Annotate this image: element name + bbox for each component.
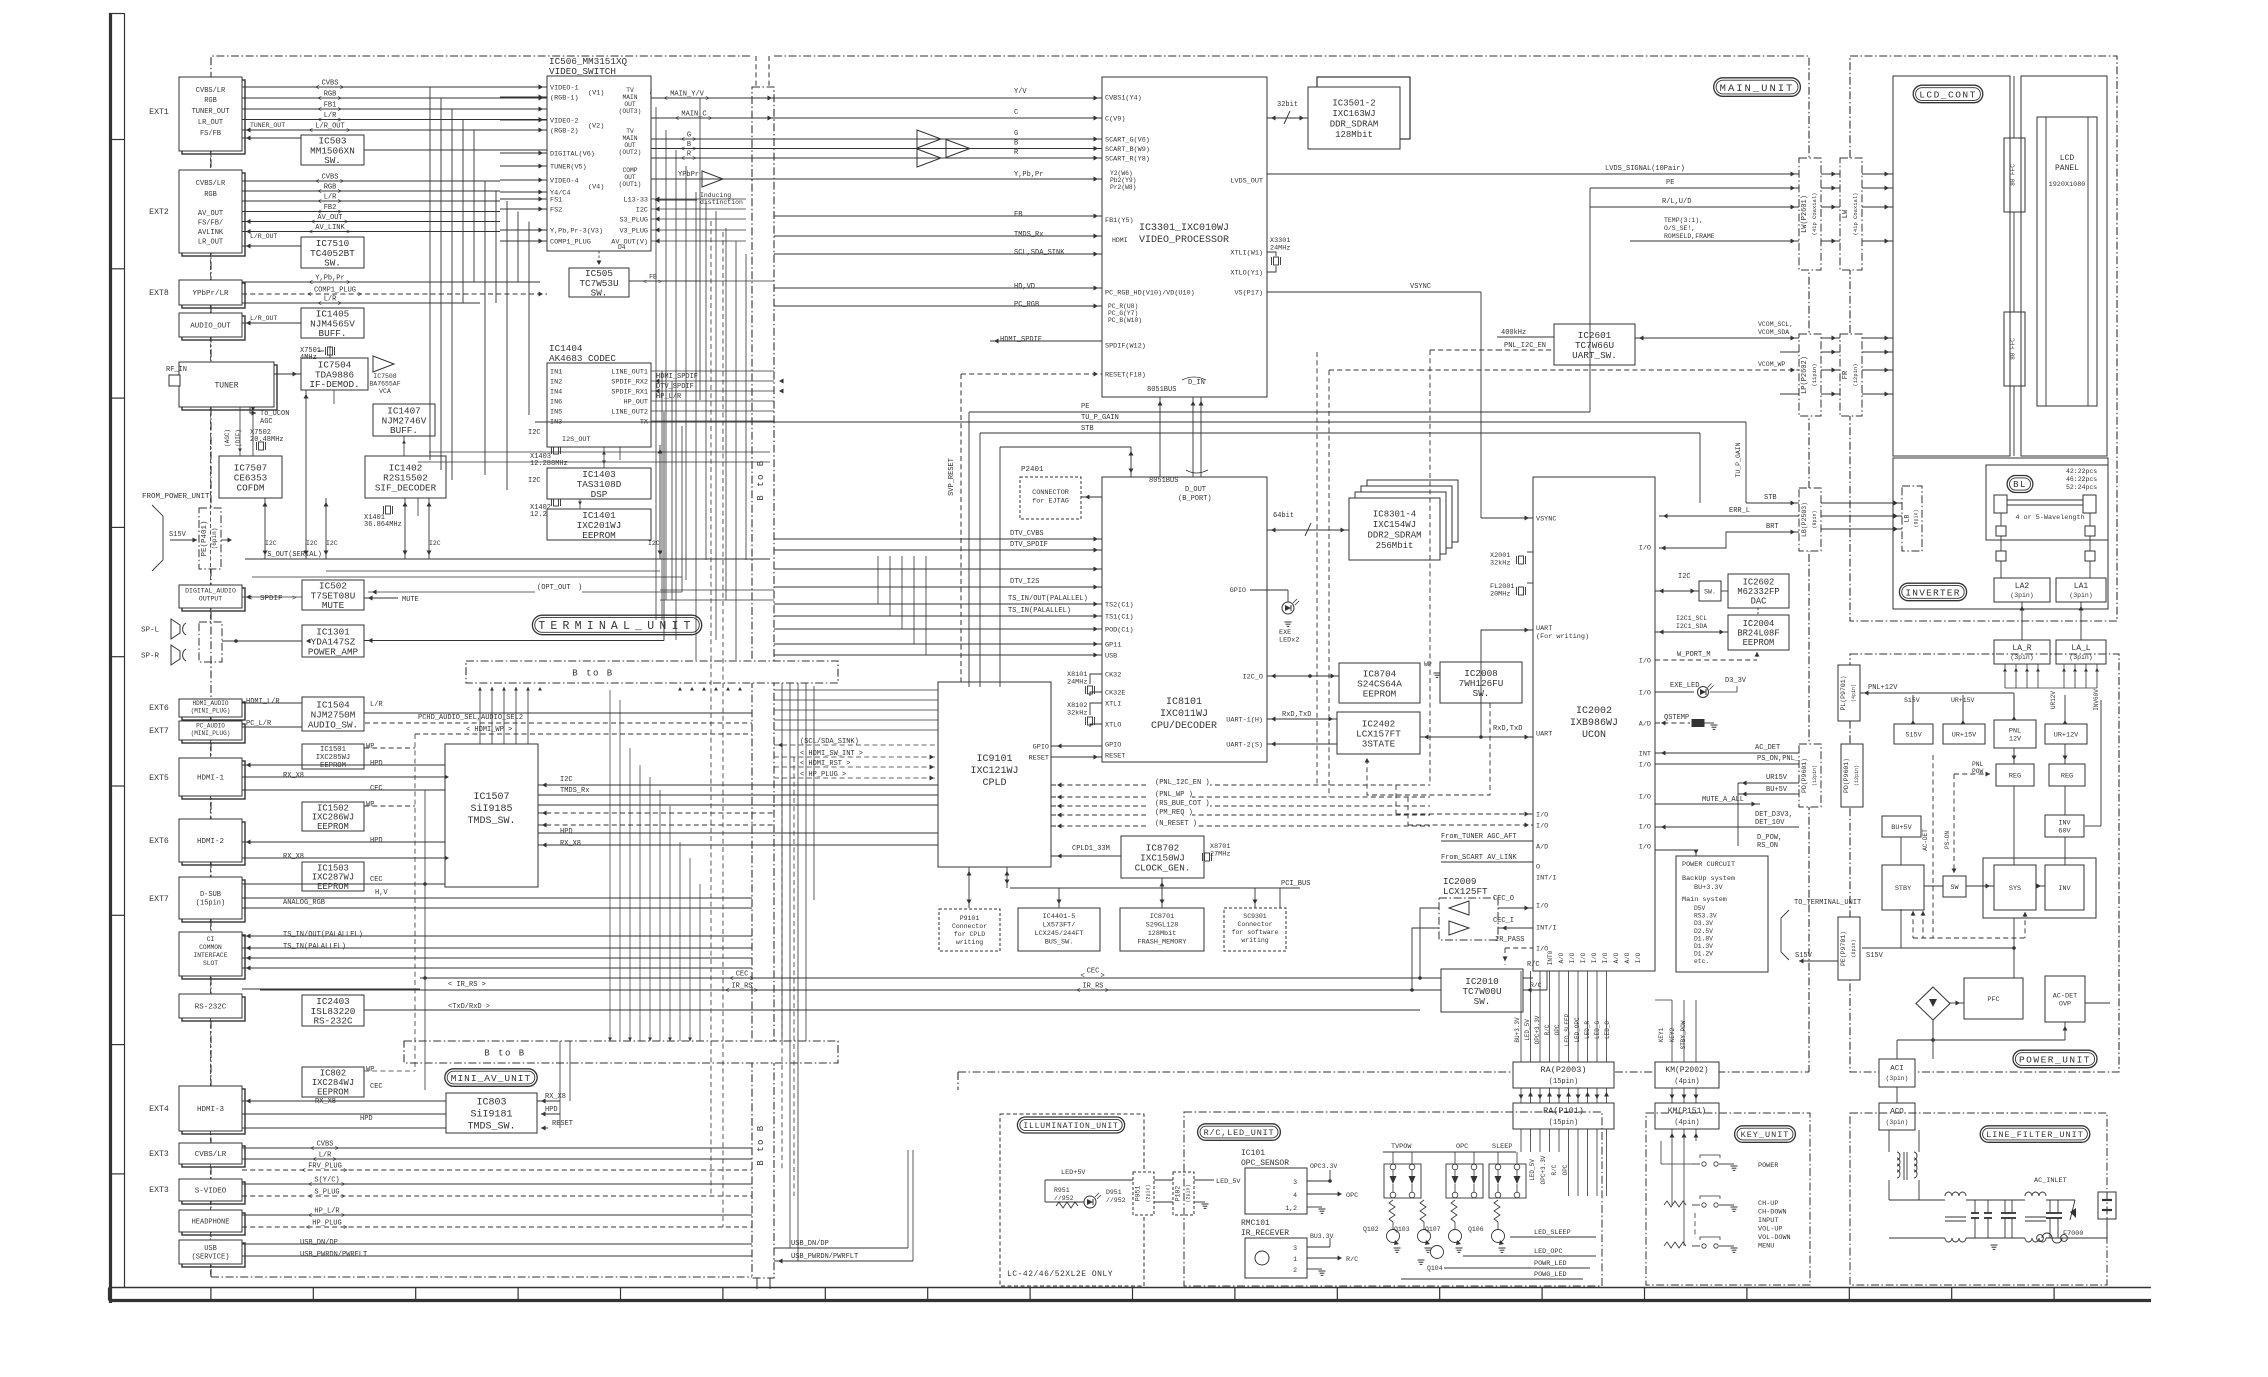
svg-text:<: < — [681, 146, 685, 154]
svg-text:IXC163WJ: IXC163WJ — [1332, 109, 1375, 119]
svg-text:AC-DET: AC-DET — [1922, 829, 1929, 851]
svg-text:HP_OUT: HP_OUT — [624, 399, 648, 407]
svg-text:PC_AUDIO: PC_AUDIO — [196, 723, 225, 730]
svg-text:H,V: H,V — [375, 889, 388, 897]
svg-text:UART-1(H): UART-1(H) — [1226, 717, 1263, 725]
svg-text:20.48MHz: 20.48MHz — [250, 436, 284, 444]
svg-text:CVBS/LR: CVBS/LR — [196, 180, 226, 188]
svg-text:(PNL_WP ): (PNL_WP ) — [1155, 791, 1193, 799]
svg-text:OPC+3.3V: OPC+3.3V — [1540, 1155, 1547, 1184]
svg-text:CVBS: CVBS — [317, 1141, 334, 1149]
svg-text:XTLI: XTLI — [1105, 701, 1121, 709]
svg-text:BL: BL — [2013, 480, 2027, 490]
svg-text:(15pin): (15pin) — [1549, 1119, 1578, 1127]
svg-text:D-SUB: D-SUB — [200, 891, 221, 899]
svg-text:(12pin): (12pin) — [1812, 765, 1818, 786]
svg-text:Y/V: Y/V — [1014, 88, 1027, 96]
svg-text:S3_PLUG: S3_PLUG — [619, 217, 648, 225]
svg-text:(PM_REQ ): (PM_REQ ) — [1155, 809, 1193, 817]
svg-text:MINI_AV_UNIT: MINI_AV_UNIT — [451, 1073, 531, 1084]
svg-text:LEDx2: LEDx2 — [1279, 637, 1299, 645]
svg-text:BUFF.: BUFF. — [319, 328, 347, 339]
svg-text:GP11: GP11 — [1105, 642, 1121, 650]
svg-text:V3_PLUG: V3_PLUG — [619, 228, 648, 236]
svg-text:L/R: L/R — [324, 112, 337, 120]
svg-text:RX_X8: RX_X8 — [545, 1093, 566, 1101]
svg-text:FR: FR — [1842, 370, 1850, 379]
svg-text:L/R: L/R — [370, 701, 383, 709]
svg-text:Y,Pb,Pr: Y,Pb,Pr — [315, 275, 344, 283]
svg-text:TEMP(3:1),: TEMP(3:1), — [1664, 217, 1703, 224]
svg-text:EEPROM: EEPROM — [1743, 638, 1775, 648]
svg-text:I2C: I2C — [1678, 573, 1691, 581]
svg-text:TV: TV — [626, 87, 634, 94]
svg-text:CVBS/LR: CVBS/LR — [196, 87, 226, 95]
svg-text:I/O: I/O — [1635, 952, 1642, 963]
svg-text:INT/I: INT/I — [1536, 875, 1556, 883]
svg-text:AVLINK: AVLINK — [198, 229, 224, 237]
svg-text:UART: UART — [1536, 625, 1552, 633]
svg-text:TMDS_Rx: TMDS_Rx — [560, 787, 589, 795]
svg-text:MAIN: MAIN — [622, 135, 637, 142]
svg-text:LCD_CONT: LCD_CONT — [1919, 89, 1977, 100]
svg-text:R/C,LED_UNIT: R/C,LED_UNIT — [1204, 1128, 1275, 1138]
svg-text:EEPROM: EEPROM — [317, 882, 349, 892]
svg-text:CVBS: CVBS — [322, 80, 339, 88]
svg-text:LVDS_SIGNAL(10Pair): LVDS_SIGNAL(10Pair) — [1605, 165, 1685, 173]
svg-text:(DIF): (DIF) — [235, 429, 242, 447]
svg-text:64bit: 64bit — [1273, 512, 1294, 520]
svg-text:L/R: L/R — [324, 296, 337, 304]
svg-text:SP-R: SP-R — [141, 653, 160, 661]
svg-text:FB1(Y5): FB1(Y5) — [1105, 217, 1134, 225]
svg-text:FRV_PLUG: FRV_PLUG — [308, 1163, 342, 1171]
svg-text:(OUT3): (OUT3) — [619, 108, 642, 115]
svg-text:UART-2(S): UART-2(S) — [1226, 742, 1263, 750]
svg-text:SiI9185: SiI9185 — [470, 803, 512, 815]
svg-text:(11pin): (11pin) — [1811, 363, 1818, 386]
svg-text:36.864MHz: 36.864MHz — [364, 521, 402, 529]
svg-text:I/O: I/O — [1580, 952, 1587, 963]
svg-text:COMP1_PLUG: COMP1_PLUG — [550, 239, 591, 247]
svg-text:I2C: I2C — [560, 776, 573, 784]
svg-text:PANEL: PANEL — [2055, 164, 2079, 173]
svg-text:< HDMI_WP >: < HDMI_WP > — [466, 726, 512, 734]
svg-text:D3_3V: D3_3V — [1725, 677, 1747, 685]
svg-text:DIGITAL_AUDIO: DIGITAL_AUDIO — [185, 588, 236, 595]
svg-text:8051BUS: 8051BUS — [1147, 386, 1176, 394]
svg-text:VIDEO_SWITCH: VIDEO_SWITCH — [549, 66, 616, 77]
svg-text:TS_IN(PALALLEL): TS_IN(PALALLEL) — [283, 943, 346, 951]
svg-text:RGB: RGB — [324, 184, 337, 192]
svg-text:BA7655AF: BA7655AF — [369, 381, 400, 388]
svg-text:TMDS_Rx: TMDS_Rx — [1014, 231, 1043, 239]
svg-text:IF-DEMOD.: IF-DEMOD. — [309, 379, 359, 390]
svg-text:UART_SW.: UART_SW. — [1572, 350, 1617, 361]
svg-text:Inducing: Inducing — [700, 192, 731, 199]
svg-text:Pr2(W8): Pr2(W8) — [1110, 184, 1136, 191]
svg-text:LED_5V: LED_5V — [1216, 1178, 1241, 1186]
svg-text:TV: TV — [626, 128, 634, 135]
svg-text:DSP: DSP — [591, 489, 608, 500]
svg-text:distinction: distinction — [700, 199, 743, 206]
svg-text:400kHz: 400kHz — [1501, 329, 1526, 337]
svg-text:TUNER: TUNER — [214, 381, 238, 390]
svg-text:FB1: FB1 — [324, 102, 337, 110]
svg-text:I/O: I/O — [1639, 545, 1651, 553]
svg-text:RX_X8: RX_X8 — [283, 853, 304, 861]
svg-text:SiI9181: SiI9181 — [470, 1109, 512, 1121]
svg-text:(SERVICE): (SERVICE) — [192, 1254, 230, 1262]
svg-text:>: > — [338, 96, 342, 104]
svg-text:>: > — [340, 85, 344, 93]
svg-text:(4pin): (4pin) — [1674, 1078, 1699, 1086]
svg-text:L/R_OUT: L/R_OUT — [250, 233, 277, 240]
svg-text:CEC: CEC — [1087, 968, 1100, 976]
svg-text:<: < — [675, 116, 679, 124]
svg-text:HPD: HPD — [370, 837, 383, 845]
svg-text:FROM_POWER_UNIT: FROM_POWER_UNIT — [142, 493, 210, 501]
svg-text:LW(P2601): LW(P2601) — [1801, 195, 1809, 233]
svg-text:EXT7: EXT7 — [149, 895, 169, 904]
svg-text:HP_PLUG: HP_PLUG — [312, 1220, 341, 1228]
svg-text:LA2: LA2 — [2015, 582, 2030, 591]
svg-text:USB: USB — [204, 1245, 217, 1253]
svg-text:YPbPr/LR: YPbPr/LR — [192, 290, 229, 298]
svg-text:MUTE_A_ALL: MUTE_A_ALL — [1702, 796, 1744, 804]
svg-text:<: < — [318, 189, 322, 197]
svg-text:(2pin): (2pin) — [1145, 1184, 1151, 1202]
svg-text:TUNER_OUT: TUNER_OUT — [250, 122, 285, 129]
svg-text:CEC: CEC — [736, 971, 749, 979]
svg-text:(3pin): (3pin) — [1886, 1075, 1909, 1082]
svg-text:LVDS_OUT: LVDS_OUT — [1230, 178, 1263, 186]
svg-text:PC_RGB: PC_RGB — [1014, 301, 1039, 309]
svg-text:LCX245/244FT: LCX245/244FT — [1035, 930, 1084, 938]
svg-text:PC_R(U8): PC_R(U8) — [1108, 303, 1138, 310]
svg-text:USB_PWRDN/PWRFLT: USB_PWRDN/PWRFLT — [791, 1253, 858, 1261]
svg-text:>: > — [658, 279, 662, 286]
svg-text:SPDIF: SPDIF — [260, 595, 283, 603]
svg-text:TERMINAL_UNIT: TERMINAL_UNIT — [538, 620, 695, 633]
svg-text:TS_IN/OUT(PALALLEL): TS_IN/OUT(PALALLEL) — [283, 931, 363, 939]
svg-text:AUDIO_SW.: AUDIO_SW. — [308, 719, 358, 730]
svg-text:POWER: POWER — [1758, 1162, 1778, 1170]
svg-text:writing: writing — [1241, 937, 1268, 944]
svg-text:< IR_RS >: < IR_RS > — [448, 981, 486, 989]
svg-text:CEC: CEC — [370, 876, 383, 884]
svg-text:46:22pcs: 46:22pcs — [2066, 476, 2097, 483]
svg-text:27MHz: 27MHz — [1210, 851, 1230, 859]
svg-text:USB_DN/DP: USB_DN/DP — [791, 1240, 829, 1248]
svg-text:PD(P9601): PD(P9601) — [1801, 758, 1808, 793]
svg-text:(41p Coaxial): (41p Coaxial) — [1852, 193, 1859, 236]
svg-text:>: > — [343, 1168, 347, 1176]
svg-text:4 or 5-Wavelength: 4 or 5-Wavelength — [2015, 514, 2084, 522]
svg-text:FS2: FS2 — [550, 207, 562, 215]
svg-text:P2401: P2401 — [1021, 466, 1044, 474]
svg-text:IC101: IC101 — [1241, 1149, 1265, 1158]
svg-text:D1.3V: D1.3V — [1694, 943, 1713, 950]
svg-text:UR15V: UR15V — [1766, 774, 1788, 782]
svg-text:LA_R: LA_R — [2012, 644, 2031, 653]
svg-text:VSYNC: VSYNC — [1410, 283, 1431, 291]
svg-text:LED_O: LED_O — [1604, 1021, 1611, 1039]
svg-text:(: ( — [649, 90, 653, 98]
svg-text:WP: WP — [1424, 661, 1432, 668]
svg-text:LW: LW — [1842, 209, 1850, 218]
svg-text:I/O: I/O — [1536, 903, 1548, 911]
svg-text:CH-DOWN: CH-DOWN — [1758, 1209, 1787, 1217]
svg-text:TS1(C1): TS1(C1) — [1105, 614, 1134, 622]
svg-text:REG: REG — [2061, 772, 2073, 780]
svg-text:SW: SW — [1950, 884, 1959, 892]
svg-text:STB: STB — [1764, 494, 1777, 502]
svg-text:LED_OPC: LED_OPC — [1574, 1017, 1581, 1043]
svg-text:>: > — [346, 128, 350, 136]
svg-text:3STATE: 3STATE — [1362, 738, 1396, 749]
svg-text:D1.2V: D1.2V — [1694, 951, 1713, 958]
svg-text:1,2: 1,2 — [1285, 1205, 1297, 1212]
svg-text:etc.: etc. — [1694, 958, 1709, 965]
svg-text:RX_X8: RX_X8 — [315, 1098, 336, 1106]
svg-text:IXC285WJ: IXC285WJ — [316, 754, 351, 762]
svg-text:EXT7: EXT7 — [149, 727, 169, 736]
svg-text:>: > — [1105, 988, 1109, 996]
svg-text:INPUT: INPUT — [1758, 1217, 1778, 1225]
svg-text:IC9101: IC9101 — [976, 754, 1012, 765]
svg-text:AC_DET: AC_DET — [1755, 744, 1780, 752]
svg-text:20MHz: 20MHz — [1490, 591, 1510, 599]
svg-text:SCL,SDA_SINK: SCL,SDA_SINK — [1014, 249, 1065, 257]
svg-text:INT/I: INT/I — [1536, 925, 1556, 933]
svg-text:TU_P_GAIN: TU_P_GAIN — [1081, 414, 1119, 422]
svg-text:XTLI(W1): XTLI(W1) — [1230, 250, 1263, 258]
svg-text:G: G — [1014, 130, 1018, 138]
svg-text:R951: R951 — [1054, 1187, 1070, 1194]
svg-text:BU+5V: BU+5V — [1891, 824, 1912, 832]
svg-text:LED+5V: LED+5V — [1061, 1169, 1086, 1177]
svg-text:GPIO: GPIO — [1033, 744, 1049, 752]
svg-text:C: C — [1014, 109, 1018, 117]
svg-text:W_PORT_M: W_PORT_M — [1677, 651, 1711, 659]
svg-text://952: //952 — [1106, 1197, 1126, 1204]
svg-text:EEPROM: EEPROM — [1363, 688, 1396, 699]
svg-text:VIDEO-2: VIDEO-2 — [550, 118, 579, 126]
svg-text:60V: 60V — [2058, 827, 2071, 835]
svg-text:WP: WP — [366, 801, 374, 809]
svg-text:L13-33: L13-33 — [624, 197, 648, 205]
svg-text:PL(P9701): PL(P9701) — [1840, 675, 1847, 710]
svg-text:R/C: R/C — [1530, 982, 1542, 989]
svg-text:TS_IN/OUT(PALALLEL): TS_IN/OUT(PALALLEL) — [1008, 595, 1088, 603]
svg-text:MAIN_C: MAIN_C — [681, 111, 706, 119]
svg-text:IR_PASS: IR_PASS — [1495, 936, 1524, 944]
svg-text:>: > — [708, 116, 712, 124]
svg-text:CPLD: CPLD — [982, 778, 1006, 789]
svg-text:IXC121WJ: IXC121WJ — [970, 766, 1018, 777]
svg-text:CK32: CK32 — [1105, 672, 1121, 680]
svg-text:Q106: Q106 — [1468, 1226, 1484, 1233]
svg-text:SCART_B(W9): SCART_B(W9) — [1105, 146, 1150, 154]
svg-text:RA(P101): RA(P101) — [1543, 1106, 1584, 1116]
svg-text:RF_IN: RF_IN — [166, 366, 187, 374]
svg-text:4: 4 — [1293, 1192, 1297, 1199]
svg-text:(4pin): (4pin) — [1851, 684, 1857, 702]
svg-text:RS-232C: RS-232C — [195, 1004, 227, 1012]
svg-text:LA1: LA1 — [2074, 582, 2089, 591]
svg-text:VS(P17): VS(P17) — [1234, 290, 1263, 298]
svg-text:USB: USB — [1105, 653, 1117, 661]
svg-text:I2C1_SCL: I2C1_SCL — [1676, 615, 1707, 622]
svg-text:42:22pcs: 42:22pcs — [2066, 468, 2097, 475]
svg-text:STBY_POW: STBY_POW — [1680, 1020, 1687, 1049]
svg-text:Q102: Q102 — [1363, 1226, 1379, 1233]
svg-text:Y,Pb,Pr-3(V3): Y,Pb,Pr-3(V3) — [550, 228, 603, 236]
svg-text:S15V: S15V — [1905, 731, 1922, 739]
svg-text:>: > — [338, 189, 342, 197]
svg-text:POWG_LED: POWG_LED — [1534, 1271, 1567, 1279]
svg-text:B: B — [1014, 140, 1018, 148]
svg-text:QSTEMP: QSTEMP — [1664, 714, 1689, 722]
svg-text:BUFF.: BUFF. — [390, 425, 418, 436]
svg-text:SLEEP: SLEEP — [1492, 1143, 1512, 1151]
svg-text:LINE_OUT1: LINE_OUT1 — [611, 369, 648, 377]
svg-text:POWER_AMP: POWER_AMP — [308, 646, 359, 657]
svg-text:I2C: I2C — [326, 540, 338, 547]
svg-text:B to B: B to B — [756, 1124, 766, 1165]
svg-text:<: < — [310, 1146, 314, 1154]
svg-text:ERR_L: ERR_L — [1729, 507, 1750, 515]
svg-text:TO_TERMINAL_UNIT: TO_TERMINAL_UNIT — [1794, 899, 1861, 907]
svg-text:LED_G: LED_G — [1594, 1021, 1601, 1039]
svg-text:LED_5V: LED_5V — [1529, 1159, 1536, 1181]
svg-text:AV_OUT: AV_OUT — [317, 214, 342, 222]
svg-text:XTLO(Y1): XTLO(Y1) — [1230, 270, 1263, 278]
svg-text:WP: WP — [366, 1066, 374, 1074]
svg-text:CVBS: CVBS — [322, 174, 339, 182]
svg-text:HP_L/R: HP_L/R — [656, 393, 682, 401]
svg-text:IC802: IC802 — [320, 1069, 346, 1079]
svg-text:RxD,TxD: RxD,TxD — [1493, 725, 1522, 733]
svg-text:LA_L: LA_L — [2071, 644, 2090, 653]
svg-text:STB: STB — [1081, 425, 1094, 433]
svg-text:VCOM_SCL,: VCOM_SCL, — [1758, 321, 1793, 328]
svg-text:80 FFC: 80 FFC — [2010, 338, 2017, 360]
svg-text:I/O: I/O — [1639, 844, 1651, 852]
svg-text:BU+3.3V: BU+3.3V — [1694, 884, 1723, 892]
svg-text:INV: INV — [2058, 885, 2071, 893]
svg-text:Main system: Main system — [1682, 896, 1727, 904]
svg-text:<: < — [308, 1182, 312, 1190]
svg-text:AV_OUT(V): AV_OUT(V) — [611, 239, 648, 247]
svg-text:32kHz: 32kHz — [1490, 560, 1510, 568]
svg-text:>: > — [754, 988, 758, 996]
svg-text:(15pin): (15pin) — [196, 900, 225, 908]
svg-text:IC4401-5: IC4401-5 — [1043, 913, 1076, 921]
svg-text:I/O: I/O — [1536, 812, 1548, 820]
svg-text:I/O: I/O — [1639, 824, 1651, 832]
svg-text:B: B — [687, 141, 691, 149]
svg-text:OPC3.3V: OPC3.3V — [1310, 1163, 1337, 1170]
svg-text:S15V: S15V — [1904, 697, 1920, 704]
svg-text:OVP: OVP — [2059, 1000, 2071, 1008]
svg-text:AC-DET: AC-DET — [2053, 992, 2077, 1000]
svg-text:PE: PE — [1081, 403, 1089, 411]
svg-text:RGB: RGB — [204, 97, 217, 105]
svg-text:KEY1: KEY1 — [1658, 1027, 1665, 1042]
svg-text:R/C: R/C — [1346, 1256, 1358, 1264]
svg-text:for software: for software — [1232, 929, 1279, 936]
svg-text:CVBS1(Y4): CVBS1(Y4) — [1105, 95, 1142, 103]
svg-text:DET_10V: DET_10V — [1755, 819, 1785, 827]
svg-text:(V1): (V1) — [588, 90, 604, 98]
svg-text:RESET: RESET — [1029, 755, 1049, 763]
svg-text:TX: TX — [640, 419, 648, 427]
svg-text:LCD: LCD — [2060, 154, 2075, 163]
svg-text:HDMI_AUDIO: HDMI_AUDIO — [192, 700, 228, 707]
svg-text:OUT: OUT — [624, 101, 636, 108]
svg-text:LED_5V: LED_5V — [1524, 1019, 1531, 1041]
svg-text:RX_X8: RX_X8 — [560, 840, 581, 848]
svg-text:RESET: RESET — [552, 1120, 573, 1128]
svg-text:TS2(C1): TS2(C1) — [1105, 602, 1134, 610]
svg-text:LB(P2503): LB(P2503) — [1801, 502, 1808, 537]
svg-text:IC7508: IC7508 — [373, 373, 397, 380]
svg-text:B to B: B to B — [484, 1049, 525, 1059]
svg-text:M62332FP: M62332FP — [1737, 587, 1779, 597]
svg-text:MAIN_Y/V: MAIN_Y/V — [670, 91, 704, 99]
svg-text:RGB: RGB — [324, 91, 337, 99]
svg-text:EXT5: EXT5 — [149, 774, 169, 783]
svg-text:S(Y/C): S(Y/C) — [314, 1177, 339, 1185]
svg-text:SLOT: SLOT — [203, 960, 218, 967]
svg-text:BU+3.3V: BU+3.3V — [1514, 1017, 1521, 1043]
svg-text:EXT6: EXT6 — [149, 704, 169, 713]
svg-text:RGB: RGB — [204, 191, 217, 199]
svg-text:DTV_SPDIF: DTV_SPDIF — [1010, 541, 1048, 549]
svg-text:<: < — [309, 229, 313, 237]
svg-text:TMDS_SW.: TMDS_SW. — [467, 1122, 515, 1133]
svg-text:SPDIF_RX2: SPDIF_RX2 — [611, 379, 648, 387]
svg-text:24MHz: 24MHz — [1067, 679, 1087, 687]
svg-text:PNL: PNL — [2009, 727, 2021, 735]
svg-text:I/O: I/O — [1639, 658, 1651, 666]
svg-text:SPDIF_RX1: SPDIF_RX1 — [611, 389, 648, 397]
svg-text:I2C: I2C — [306, 540, 318, 547]
svg-text:<: < — [681, 156, 685, 164]
svg-text:4MHz: 4MHz — [300, 354, 317, 362]
svg-text:VCOM_WP: VCOM_WP — [1758, 361, 1785, 368]
svg-text:POWR_LED: POWR_LED — [1534, 1260, 1567, 1268]
svg-text:Connector: Connector — [1237, 921, 1272, 928]
svg-text:Y2(W6): Y2(W6) — [1110, 170, 1133, 177]
svg-text:LED_OPC: LED_OPC — [1534, 1248, 1563, 1256]
svg-text:<: < — [315, 179, 319, 187]
svg-text:PFC: PFC — [1987, 996, 1999, 1004]
svg-text:PE(P9701): PE(P9701) — [1840, 931, 1847, 966]
svg-text:AK4683 CODEC: AK4683 CODEC — [549, 353, 616, 364]
svg-text:IN3: IN3 — [550, 419, 562, 427]
svg-text:B to B: B to B — [572, 669, 613, 679]
svg-text:(12pin): (12pin) — [1854, 765, 1860, 786]
svg-text:POWER CURCUIT: POWER CURCUIT — [1682, 861, 1735, 869]
svg-text:IC1501: IC1501 — [320, 746, 346, 754]
svg-text:I2C_O: I2C_O — [1243, 674, 1263, 682]
svg-text:PNL+12V: PNL+12V — [1868, 684, 1898, 692]
svg-text:12V: 12V — [2009, 735, 2022, 743]
svg-text:(OUT2): (OUT2) — [619, 149, 642, 156]
